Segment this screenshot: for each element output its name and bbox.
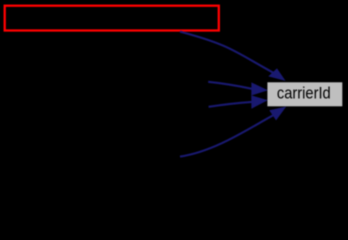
wire: edge from hidden caller B (lower straight)	[209, 102, 252, 107]
arrowhead: lower straight edge into left edge of carrierId	[252, 96, 267, 108]
arrowhead: top curve into top edge of carrierId	[269, 69, 284, 80]
wire: edge from hidden caller C (bottom curve)	[180, 115, 273, 156]
wire: edge from current node to carrierId (top curve)	[180, 32, 273, 73]
arrowhead: upper straight edge into left edge of carrierId	[252, 83, 267, 95]
wire: edge from hidden caller A (upper straight)	[208, 82, 252, 89]
node: current function (red-outlined box, label hidden)	[5, 6, 219, 31]
node carrierId (gray box)	[267, 82, 342, 106]
arrowhead: bottom curve into bottom edge of carrierId	[270, 107, 285, 119]
svg-text:carrierId: carrierId	[277, 83, 331, 102]
